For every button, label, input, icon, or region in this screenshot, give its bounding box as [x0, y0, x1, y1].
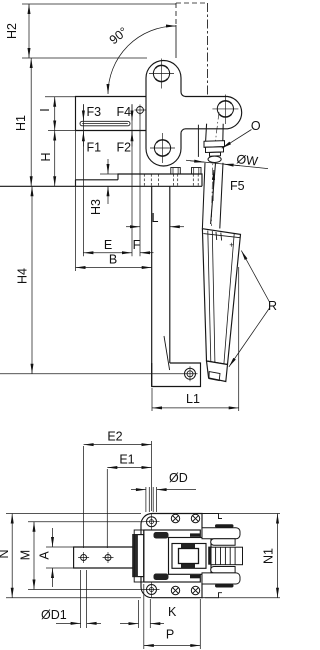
vertical slide bar	[152, 186, 170, 386]
svg-text:L: L	[152, 211, 159, 225]
extension line arm plate bottom left	[48, 130, 76, 132]
body left small block	[134, 530, 144, 582]
svg-text:A: A	[38, 551, 52, 560]
plate corner hole top	[147, 517, 157, 527]
seam band lower outer	[154, 574, 169, 581]
arm hole bottom	[150, 133, 175, 163]
svg-text:P: P	[166, 628, 174, 642]
extension screw line	[0, 373, 198, 375]
clamp screw circle	[185, 368, 196, 379]
socket screw top right	[191, 514, 199, 522]
phantom arm open position (dashed)	[176, 3, 208, 96]
lever nut band 2	[206, 147, 224, 153]
nested rect 2	[172, 544, 206, 569]
extension slot left centre	[82, 104, 84, 256]
socket screw top left	[171, 514, 179, 522]
extension pivot axis up	[151, 441, 153, 511]
extension bar hole2 up	[106, 469, 108, 548]
L1 extension left	[151, 388, 153, 411]
svg-text:O: O	[251, 119, 261, 133]
plate right step lower	[202, 593, 222, 598]
svg-text:H1: H1	[14, 115, 28, 131]
R leader lower	[229, 308, 270, 367]
svg-text:H4: H4	[16, 268, 30, 284]
F4 arrow	[131, 105, 133, 121]
slanted detail line in bar	[164, 336, 170, 370]
svg-text:E: E	[104, 238, 112, 252]
dimension F right arrow	[140, 252, 154, 254]
extension pivot pin	[139, 114, 141, 256]
fork plate edge line	[197, 125, 199, 157]
svg-text:N: N	[0, 549, 11, 558]
seam band upper inner	[181, 544, 195, 549]
lever nut band 1	[204, 141, 225, 148]
bar plan view	[74, 547, 142, 568]
socket screw bottom left	[171, 586, 179, 594]
grip end cap	[207, 361, 228, 382]
dimension N1	[205, 513, 280, 515]
svg-text:M: M	[19, 550, 33, 560]
extension slot right centre	[131, 104, 133, 256]
90 degree arc	[108, 26, 176, 94]
upper link dark lens	[215, 524, 234, 528]
screw body with thread	[211, 547, 243, 565]
O leader	[222, 130, 252, 149]
dimension L arrows outside	[126, 226, 140, 228]
grip socket joint lines	[216, 232, 222, 241]
svg-text:H2: H2	[5, 23, 19, 39]
F2 arrow	[131, 131, 133, 146]
svg-text:F: F	[133, 238, 141, 252]
svg-text:K: K	[168, 605, 177, 619]
base plate thin left part	[76, 180, 119, 187]
dimension P	[143, 584, 145, 649]
dimension E1	[107, 467, 151, 469]
toggle dark bar	[208, 547, 211, 565]
dimension E	[83, 252, 132, 254]
svg-text:N1: N1	[262, 548, 276, 564]
nested rect 3 (jaw box)	[179, 549, 199, 564]
handle grip	[202, 229, 240, 365]
lower link strip	[202, 573, 240, 584]
arm body (T-shaped casting)	[146, 61, 242, 167]
extension line arm top	[22, 57, 147, 59]
svg-text:R: R	[268, 299, 277, 313]
dimension H1	[30, 58, 32, 186]
stud bolt left on plate	[171, 168, 181, 175]
dimension N	[6, 513, 141, 515]
extension bar hole1 up	[83, 446, 85, 548]
grip surface cross mark	[230, 243, 234, 247]
roller	[208, 156, 221, 162]
pivot pin small circle	[137, 107, 144, 114]
lower middle link	[211, 567, 235, 573]
svg-text:E1: E1	[119, 453, 134, 467]
hidden lines in plate	[144, 174, 198, 186]
seam band upper outer	[154, 532, 169, 539]
grip sleeve lines	[208, 231, 234, 365]
lower link dark lens	[215, 584, 234, 588]
washer neck	[210, 152, 221, 156]
dimension H4	[31, 186, 33, 373]
svg-text:F3: F3	[87, 105, 102, 119]
svg-text:B: B	[109, 253, 117, 267]
lever centreline	[211, 112, 219, 226]
dimension K extensions and arrows	[138, 600, 140, 628]
stud bolt right on plate	[192, 168, 202, 175]
plate corner hole bottom	[147, 585, 157, 595]
arm hole right (handle pivot)	[212, 95, 238, 125]
socket screw bottom right	[191, 586, 199, 594]
grip end cap inner	[209, 372, 220, 381]
svg-text:F2: F2	[117, 141, 132, 155]
F1 arrow	[82, 131, 84, 146]
slot inner line	[82, 122, 128, 124]
svg-text:I: I	[38, 108, 52, 111]
dimension B	[76, 267, 152, 269]
svg-text:F5: F5	[230, 179, 245, 193]
H3 surface extension line	[100, 173, 118, 175]
foot bracket at bar bottom	[152, 363, 201, 387]
extension arm plate left edge down to B	[75, 131, 77, 272]
dimension A arrows outside	[46, 546, 73, 548]
lower dark band at body edge	[190, 575, 201, 578]
OW dimension slanted line	[186, 160, 268, 168]
svg-text:90°: 90°	[107, 25, 131, 48]
base plate plan	[141, 514, 202, 598]
handle lever shaft	[202, 163, 223, 229]
svg-text:ØD: ØD	[169, 471, 188, 485]
extension line arm plate top left	[45, 96, 76, 98]
L1 extension right	[238, 267, 240, 411]
R leader upper	[241, 251, 269, 303]
upper link strip	[202, 528, 240, 539]
dimension H2	[28, 4, 30, 58]
bar hole 2	[105, 555, 111, 561]
clamp arm plate (horizontal bar with slot)	[76, 97, 147, 131]
dimension L1	[152, 407, 239, 409]
base plate main block	[0, 174, 202, 186]
dimension OD arrows and extensions	[145, 487, 147, 512]
bar hole 1	[81, 555, 87, 561]
plate right step upper	[202, 514, 222, 519]
dimension I	[54, 97, 56, 131]
svg-text:ØW: ØW	[236, 152, 259, 169]
svg-text:F1: F1	[87, 141, 102, 155]
svg-text:H: H	[39, 152, 53, 161]
dimension M	[28, 521, 144, 523]
F5 force arrow	[212, 170, 215, 201]
svg-text:L1: L1	[186, 392, 200, 406]
dimension H	[54, 131, 56, 187]
dimension OD1 extensions and arrows	[80, 570, 82, 628]
nested rect 1	[169, 538, 212, 575]
F3 arrow	[82, 105, 84, 121]
svg-text:ØD1: ØD1	[41, 608, 67, 622]
handle lever head (fork)	[206, 124, 224, 142]
grip ferrule line	[203, 234, 240, 238]
svg-text:F4: F4	[117, 105, 132, 119]
svg-text:H3: H3	[89, 199, 103, 215]
seam band lower inner	[181, 564, 195, 569]
body block plan	[144, 530, 201, 582]
arm hole top	[149, 59, 174, 89]
clevis end cap with dark strip	[133, 535, 144, 577]
dimension E2	[84, 444, 152, 446]
upper dark band at body edge	[190, 533, 201, 536]
svg-text:E2: E2	[107, 430, 122, 444]
slot in arm plate	[80, 121, 130, 126]
extension line top of phantom	[22, 3, 176, 5]
upper middle link	[211, 539, 235, 545]
dimension H3 arrows outside	[107, 159, 109, 174]
